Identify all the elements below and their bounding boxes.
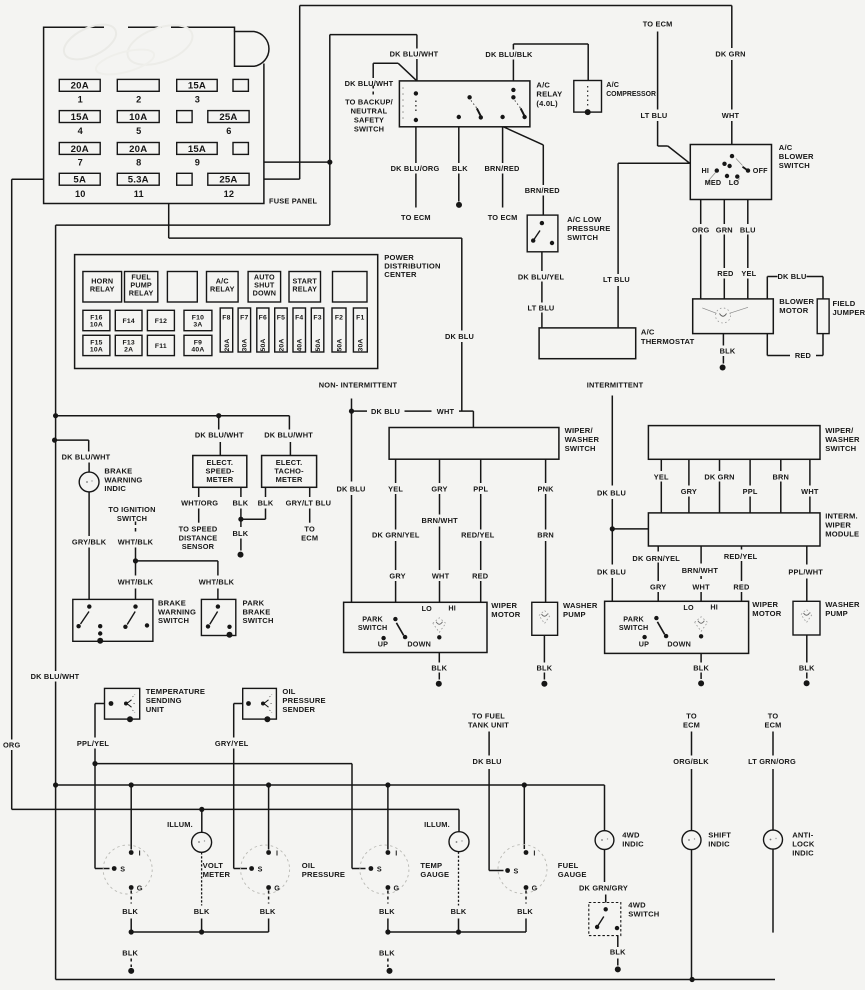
- svg-text:SWITCH: SWITCH: [117, 514, 147, 523]
- svg-text:DK BLU/WHT: DK BLU/WHT: [345, 79, 394, 88]
- wire BLK tachometer to ground join: [241, 487, 274, 519]
- wire DK BLU/ORG to ECM: [391, 127, 440, 222]
- wire node A down-left to left riser (DK BLU/WHT main): [56, 162, 330, 416]
- svg-text:MOTOR: MOTOR: [752, 609, 781, 618]
- svg-text:9: 9: [195, 158, 200, 168]
- fuse panel spare cavity: [177, 173, 192, 185]
- svg-text:MED: MED: [705, 178, 722, 187]
- svg-text:ORG: ORG: [692, 225, 709, 234]
- svg-text:RED/YEL: RED/YEL: [461, 531, 495, 540]
- svg-text:BLK: BLK: [379, 948, 395, 957]
- A/C relay switch contacts (right): [500, 88, 526, 120]
- node oil gauge I feed: [266, 782, 271, 787]
- A/C relay (4.0L) box U1: [399, 81, 530, 127]
- svg-text:12: 12: [224, 189, 235, 199]
- svg-text:7: 7: [78, 158, 83, 168]
- svg-text:F3: F3: [313, 315, 321, 322]
- svg-text:3A: 3A: [193, 322, 202, 329]
- wire DK BLU/WHT into tachometer: [264, 416, 313, 456]
- label SHIFT INDIC: [708, 831, 731, 849]
- wire RED field jumper bottom: [767, 334, 823, 361]
- svg-text:WHT: WHT: [722, 111, 740, 120]
- wire BLK to ground below speedometer: [233, 519, 249, 557]
- label OIL PRESSURE: [302, 861, 345, 879]
- wire BLK wiper motor ground (int): [693, 653, 709, 686]
- label INTERMITTENT: [587, 381, 644, 390]
- bus wire 4a (volt/oil ground tie): [131, 919, 268, 933]
- svg-text:INDIC: INDIC: [792, 849, 814, 858]
- bus wire 4b (temp/fuel ground tie): [388, 919, 526, 933]
- fuse position 3 (15A): [177, 79, 218, 104]
- fuse position 11 (5.3A): [117, 173, 159, 199]
- wire BLK washer pump ground (int): [799, 635, 815, 686]
- wire BLK temp gauge ground chain: [379, 891, 395, 933]
- svg-text:BLK: BLK: [379, 907, 395, 916]
- svg-text:LO: LO: [683, 603, 694, 612]
- label PARK BRAKE SWITCH: [243, 599, 274, 626]
- PDC relay cavity: spare: [333, 272, 368, 303]
- label NON-INTERMITTENT: [319, 381, 398, 390]
- svg-text:RELAY: RELAY: [129, 288, 154, 297]
- fuse panel spare cavity: [177, 111, 192, 123]
- wire GRY / BRN/WHT / WHT to wiper motor: [422, 459, 459, 602]
- svg-text:TO IGNITION: TO IGNITION: [108, 505, 155, 514]
- svg-text:RELAY: RELAY: [210, 284, 235, 293]
- svg-text:20A: 20A: [224, 338, 231, 351]
- wire GRY/LT BLU to ECM: [286, 487, 332, 542]
- label BLOWER MOTOR: [779, 297, 814, 315]
- label ANTI-LOCK INDIC: [792, 831, 815, 858]
- svg-text:JUMPER: JUMPER: [833, 308, 865, 317]
- PDC fuse F14: [115, 310, 142, 330]
- fuse panel spare cavity: [233, 143, 248, 155]
- svg-text:S: S: [120, 865, 125, 874]
- bus wire DK BLU/WHT to speedometer and tachometer: [56, 415, 290, 417]
- svg-text:ECM: ECM: [301, 533, 318, 542]
- label 4WD SWITCH: [628, 901, 659, 919]
- svg-text:RELAY: RELAY: [292, 284, 317, 293]
- label INTERM. WIPER MODULE: [825, 512, 859, 539]
- junction dot BLK grounds: [238, 517, 243, 522]
- svg-text:DOWN: DOWN: [407, 639, 431, 648]
- wire BRN switch to module: [772, 459, 789, 513]
- svg-text:UNIT: UNIT: [146, 705, 165, 714]
- svg-text:DK BLU/WHT: DK BLU/WHT: [31, 672, 80, 681]
- svg-text:PPL/WHT: PPL/WHT: [788, 567, 823, 576]
- svg-text:4WD: 4WD: [628, 901, 646, 910]
- bottom rail continues to anti-lock column: [692, 979, 775, 981]
- label FUEL GAUGE: [558, 861, 587, 879]
- svg-text:BLK: BLK: [233, 499, 249, 508]
- svg-text:DISTANCE: DISTANCE: [179, 533, 218, 542]
- PDC fuse F8 20A: [220, 308, 233, 352]
- svg-text:BRAKE: BRAKE: [158, 599, 186, 608]
- label WIPER MOTOR (non-int): [491, 601, 520, 619]
- label WASHER PUMP (non-int): [563, 601, 598, 619]
- wire PPL/YEL down to volt meter S: [95, 764, 110, 869]
- label FIELD JUMPER: [833, 299, 865, 317]
- svg-text:WASHER: WASHER: [563, 601, 598, 610]
- svg-text:25A: 25A: [219, 175, 237, 186]
- svg-text:5: 5: [136, 126, 141, 136]
- label TO ECM (anti-lock): [764, 712, 781, 730]
- svg-text:50A: 50A: [260, 338, 267, 351]
- ground dot (A/C relay BLK): [456, 202, 462, 208]
- wire to volt illumination lamp: [167, 809, 202, 832]
- wire BLU / YEL blower switch to motor: [740, 200, 757, 299]
- node DK BLU junction (non-int): [349, 409, 354, 414]
- svg-text:OIL: OIL: [302, 861, 315, 870]
- node temp illum at bus4b: [456, 929, 461, 934]
- wire PPL/WHT module to washer pump: [788, 546, 823, 601]
- wire to temp illumination lamp: [424, 820, 450, 829]
- svg-text:BLK: BLK: [720, 346, 736, 355]
- wire DK BLU field jumper top: [767, 272, 823, 299]
- svg-text:BLK: BLK: [194, 907, 210, 916]
- wire PPL / RED/YEL / RED to wiper motor: [461, 459, 495, 602]
- svg-text:DOWN: DOWN: [253, 288, 277, 297]
- svg-text:HI: HI: [710, 602, 718, 611]
- svg-text:SWITCH: SWITCH: [619, 623, 649, 632]
- svg-text:2A: 2A: [124, 346, 133, 353]
- intermittent wiper module: [648, 513, 820, 546]
- wire RED/YEL / RED module to motor: [724, 546, 758, 601]
- wire DK BLU / WHT into wiper washer switch: [352, 407, 474, 428]
- node WHT/BLK junction: [133, 558, 138, 563]
- wire DK BLU/YEL / LT BLU to thermostat: [518, 252, 565, 328]
- svg-text:RELAY: RELAY: [90, 284, 115, 293]
- svg-text:30A: 30A: [242, 338, 249, 351]
- PDC relay cavity: HORN RELAY: [83, 272, 122, 303]
- wire ORG: fuse panel left to bottom-left bus: [3, 179, 95, 809]
- bus wire 1 (sender feed) to temp gauge S: [95, 764, 366, 869]
- wire DK BLU: fuse panel bottom to wiper switch feed: [169, 204, 474, 412]
- PDC fuse F1 30A: [353, 308, 367, 352]
- svg-text:GAUGE: GAUGE: [558, 870, 587, 879]
- svg-text:INDIC: INDIC: [622, 840, 644, 849]
- wire BLK oil gauge ground: [260, 891, 276, 916]
- svg-text:GRY: GRY: [431, 484, 447, 493]
- svg-text:RELAY: RELAY: [536, 90, 562, 99]
- wire DK BLU riser to wiper motor (intermittent): [597, 529, 626, 601]
- svg-text:WIPER: WIPER: [825, 521, 851, 530]
- svg-text:TO: TO: [768, 712, 779, 721]
- svg-text:ECM: ECM: [764, 721, 781, 730]
- svg-text:WIPER/: WIPER/: [565, 426, 594, 435]
- svg-text:YEL: YEL: [741, 269, 756, 278]
- fuse position 12 (25A): [208, 173, 249, 199]
- svg-text:2: 2: [136, 95, 141, 105]
- svg-text:20A: 20A: [278, 338, 285, 351]
- svg-text:DK BLU: DK BLU: [777, 272, 806, 281]
- svg-text:LT BLU: LT BLU: [528, 304, 555, 313]
- wire GRY/YEL oil sender to gauge: [215, 704, 249, 869]
- wire PNK / BRN to washer pump: [537, 459, 554, 602]
- svg-text:BLK: BLK: [451, 907, 467, 916]
- svg-text:10: 10: [75, 189, 86, 199]
- svg-text:WHT: WHT: [437, 407, 455, 416]
- svg-text:LT GRN/ORG: LT GRN/ORG: [748, 757, 796, 766]
- wire ORG/BLK to shift indicator: [673, 732, 709, 831]
- svg-text:TO: TO: [304, 525, 315, 534]
- svg-text:BRN/WHT: BRN/WHT: [682, 566, 719, 575]
- svg-text:WHT: WHT: [801, 487, 819, 496]
- svg-text:MODULE: MODULE: [825, 530, 859, 539]
- svg-text:LO: LO: [729, 178, 740, 187]
- svg-text:GRY/YEL: GRY/YEL: [215, 739, 249, 748]
- svg-text:MOTOR: MOTOR: [779, 306, 808, 315]
- svg-text:BLK: BLK: [122, 907, 138, 916]
- A/C relay switch contacts (center): [457, 95, 483, 120]
- svg-text:S: S: [377, 865, 382, 874]
- svg-text:F8: F8: [222, 315, 230, 322]
- blower motor M1: [693, 299, 774, 334]
- PDC fuse F10 3A: [184, 310, 212, 330]
- label TEMP GAUGE: [420, 861, 449, 879]
- svg-text:15A: 15A: [188, 81, 206, 92]
- wiper/washer switch (non-intermittent): [389, 428, 559, 460]
- wire WHT/ORG to speed distance sensor: [179, 487, 219, 551]
- label A/C LOW PRESSURE SWITCH: [567, 215, 610, 242]
- A/C relay coil contacts: [414, 91, 418, 122]
- wire DK BLU fuel tank to fuel gauge S: [473, 732, 504, 871]
- label WASHER PUMP (int): [825, 600, 860, 618]
- svg-text:BRN/RED: BRN/RED: [525, 186, 561, 195]
- label WIPER/WASHER SWITCH (non-int): [565, 426, 600, 453]
- node fuel gauge I feed: [522, 782, 527, 787]
- fuse panel outline: [44, 17, 269, 203]
- svg-text:YEL: YEL: [388, 484, 403, 493]
- svg-text:DOWN: DOWN: [667, 639, 691, 648]
- PDC fuse F2 50A: [332, 308, 346, 352]
- svg-text:DK GRN/GRY: DK GRN/GRY: [579, 883, 628, 892]
- A/C blower switch S1: [690, 145, 771, 200]
- wire riser continues down (DK BLU/WHT): [31, 416, 80, 785]
- svg-text:SWITCH: SWITCH: [565, 444, 596, 453]
- svg-text:8: 8: [136, 158, 141, 168]
- svg-text:BLK: BLK: [258, 499, 274, 508]
- svg-text:I: I: [533, 849, 535, 858]
- svg-text:ILLUM.: ILLUM.: [167, 820, 193, 829]
- wire BRN/RED to ECM: [484, 127, 520, 222]
- svg-text:F6: F6: [259, 315, 267, 322]
- anti-lock indicator lamp: [764, 830, 783, 849]
- wire BRN/RED branch to A/C low pressure switch: [503, 127, 560, 215]
- svg-text:TO FUEL: TO FUEL: [472, 712, 505, 721]
- bus wire 3 (illumination ORG feed): [95, 809, 459, 831]
- svg-text:UP: UP: [378, 639, 388, 648]
- wire WHT/BLK to park brake switch: [136, 561, 235, 600]
- svg-text:LOCK: LOCK: [792, 840, 815, 849]
- svg-text:15A: 15A: [188, 144, 206, 155]
- svg-text:50A: 50A: [315, 338, 322, 351]
- svg-text:WASHER: WASHER: [565, 435, 600, 444]
- illumination lamp (volt meter): [192, 832, 212, 852]
- svg-text:ORG/BLK: ORG/BLK: [673, 757, 709, 766]
- fuse position 1 (20A): [59, 79, 100, 104]
- svg-text:RED: RED: [717, 269, 734, 278]
- svg-text:INDIC: INDIC: [104, 484, 126, 493]
- junction dot speedometer feed: [216, 413, 221, 418]
- svg-text:DK BLU/WHT: DK BLU/WHT: [264, 431, 313, 440]
- svg-text:F4: F4: [295, 315, 303, 322]
- svg-text:WHT/BLK: WHT/BLK: [199, 578, 235, 587]
- svg-text:ANTI-: ANTI-: [792, 831, 814, 840]
- svg-text:10A: 10A: [129, 112, 147, 123]
- label TEMPERATURE SENDING UNIT: [146, 687, 205, 714]
- svg-text:PRESSURE: PRESSURE: [567, 224, 610, 233]
- svg-text:BLOWER: BLOWER: [779, 297, 814, 306]
- label VOLT METER: [203, 861, 231, 879]
- fuse position 2 (empty): [117, 79, 159, 104]
- svg-text:A/C: A/C: [606, 80, 619, 89]
- svg-text:PUMP: PUMP: [825, 609, 848, 618]
- wire DK GRN/YEL / GRY module to motor: [632, 546, 680, 601]
- fuse position 10 (5A): [59, 173, 100, 199]
- svg-text:20A: 20A: [71, 144, 89, 155]
- node illumination feed volt: [199, 807, 204, 812]
- shift indicator lamp: [682, 831, 701, 850]
- svg-text:SWITCH: SWITCH: [567, 233, 598, 242]
- node PPL/YEL bus junction: [92, 761, 97, 766]
- svg-text:WIPER: WIPER: [752, 600, 778, 609]
- svg-text:TO SPEED: TO SPEED: [179, 525, 218, 534]
- junction dot left riser at bus: [53, 413, 58, 418]
- wire oil gauge I: [268, 785, 270, 850]
- PDC fuse F6 50A: [257, 308, 269, 352]
- A/C thermostat: [539, 328, 636, 359]
- park brake switch S4: [201, 599, 235, 637]
- svg-text:5.3A: 5.3A: [128, 175, 149, 186]
- svg-text:DK BLU: DK BLU: [445, 332, 474, 341]
- svg-text:WHT: WHT: [432, 572, 450, 581]
- PDC relay cavity: START RELAY: [289, 272, 321, 303]
- svg-text:DK BLU/YEL: DK BLU/YEL: [518, 273, 565, 282]
- svg-text:WHT/BLK: WHT/BLK: [118, 537, 154, 546]
- bus wire 2 (ignition feed) across gauges: [56, 785, 605, 831]
- wire temp gauge I: [387, 785, 389, 850]
- svg-text:SENDER: SENDER: [282, 705, 315, 714]
- svg-text:SWITCH: SWITCH: [779, 161, 810, 170]
- wire YEL / DK GRN/YEL / GRY to wiper motor: [372, 459, 420, 602]
- fuse position 7 (20A): [59, 143, 100, 168]
- svg-text:F14: F14: [122, 318, 134, 325]
- svg-text:F5: F5: [277, 315, 285, 322]
- svg-text:BRAKE: BRAKE: [104, 467, 132, 476]
- node volt G at bus4a: [129, 929, 134, 934]
- svg-text:BLOWER: BLOWER: [779, 152, 814, 161]
- svg-text:DK BLU/WHT: DK BLU/WHT: [390, 50, 439, 59]
- svg-text:20A: 20A: [71, 81, 89, 92]
- svg-text:I: I: [139, 849, 141, 858]
- svg-text:NEUTRAL: NEUTRAL: [351, 107, 388, 116]
- svg-text:METER: METER: [203, 870, 231, 879]
- svg-text:SWITCH: SWITCH: [358, 623, 388, 632]
- node riser at bus 2: [53, 782, 58, 787]
- label WIPER/WASHER SWITCH (int): [825, 426, 860, 453]
- junction dot brake warning branch: [52, 438, 57, 443]
- wire riser bottom run to shift indicator: [56, 785, 693, 980]
- label POWER DISTRIBUTION CENTER: [384, 253, 440, 279]
- PDC fuse F15 10A: [83, 335, 110, 355]
- svg-text:GAUGE: GAUGE: [420, 870, 449, 879]
- wiper motor (intermittent) M4: [605, 601, 749, 653]
- svg-text:WARNING: WARNING: [158, 607, 196, 616]
- electronic tachometer: [262, 456, 317, 488]
- svg-text:BRN/RED: BRN/RED: [484, 164, 520, 173]
- svg-text:BLK: BLK: [233, 529, 249, 538]
- brake warning switch S3: [73, 599, 153, 643]
- washer pump (non-intermittent) M3: [532, 602, 558, 635]
- svg-text:I: I: [276, 849, 278, 858]
- wiper/washer switch (intermittent): [648, 426, 820, 460]
- svg-text:ECM: ECM: [683, 721, 700, 730]
- svg-text:PARK: PARK: [362, 614, 383, 623]
- svg-text:50A: 50A: [336, 338, 343, 351]
- svg-text:6: 6: [226, 126, 231, 136]
- svg-text:G: G: [274, 884, 280, 893]
- temperature sending unit: [105, 688, 140, 722]
- svg-text:GRY: GRY: [681, 487, 697, 496]
- svg-text:DK BLU: DK BLU: [336, 484, 365, 493]
- svg-text:SWITCH: SWITCH: [825, 444, 856, 453]
- svg-text:WASHER: WASHER: [825, 435, 860, 444]
- svg-text:F11: F11: [155, 343, 167, 350]
- PDC fuse F13 2A: [115, 335, 142, 355]
- svg-text:5A: 5A: [73, 175, 86, 186]
- svg-text:PARK: PARK: [623, 614, 644, 623]
- fuse position 6 (25A): [208, 111, 249, 137]
- fuse position 9 (15A): [177, 143, 218, 168]
- wire DK BLU junction to module: [612, 528, 648, 530]
- svg-text:NON- INTERMITTENT: NON- INTERMITTENT: [319, 381, 398, 390]
- svg-text:BLK: BLK: [610, 948, 626, 957]
- label TO IGNITION SWITCH: [108, 505, 155, 523]
- svg-text:OFF: OFF: [753, 166, 768, 175]
- node shift indicator at bottom rail: [690, 977, 695, 982]
- svg-text:METER: METER: [276, 475, 303, 484]
- svg-text:COMPRESSOR: COMPRESSOR: [606, 91, 656, 98]
- A/C compressor: [574, 81, 602, 116]
- label WIPER MOTOR (int): [752, 600, 781, 618]
- svg-text:RED: RED: [733, 582, 750, 591]
- label BRAKE WARNING SWITCH: [158, 599, 196, 626]
- power distribution center box: [75, 255, 378, 369]
- wire GRY switch to module: [681, 459, 697, 513]
- svg-text:GRY/LT BLU: GRY/LT BLU: [286, 499, 332, 508]
- svg-text:RED: RED: [472, 572, 489, 581]
- svg-text:TEMP: TEMP: [420, 861, 442, 870]
- svg-text:30A: 30A: [358, 338, 365, 351]
- 4WD switch S5: [589, 903, 621, 936]
- svg-text:YEL: YEL: [654, 472, 669, 481]
- wire DK BLU/WHT into speedometer: [195, 416, 244, 456]
- svg-text:A/C: A/C: [641, 328, 655, 337]
- wire YEL switch to module: [654, 459, 669, 513]
- svg-text:WIPER/: WIPER/: [825, 426, 854, 435]
- wire DK BLU/WHT to brake warning indicator: [55, 440, 111, 472]
- svg-text:10A: 10A: [90, 322, 103, 329]
- field jumper: [817, 299, 829, 334]
- wire PPL switch to module: [743, 459, 758, 513]
- PDC fuse F3 50A: [311, 308, 324, 352]
- svg-text:GRY/BLK: GRY/BLK: [72, 537, 107, 546]
- svg-text:10A: 10A: [90, 346, 103, 353]
- svg-text:INTERM.: INTERM.: [825, 512, 858, 521]
- svg-text:15A: 15A: [71, 112, 89, 123]
- svg-text:DK BLU: DK BLU: [597, 567, 626, 576]
- svg-text:BLK: BLK: [517, 907, 533, 916]
